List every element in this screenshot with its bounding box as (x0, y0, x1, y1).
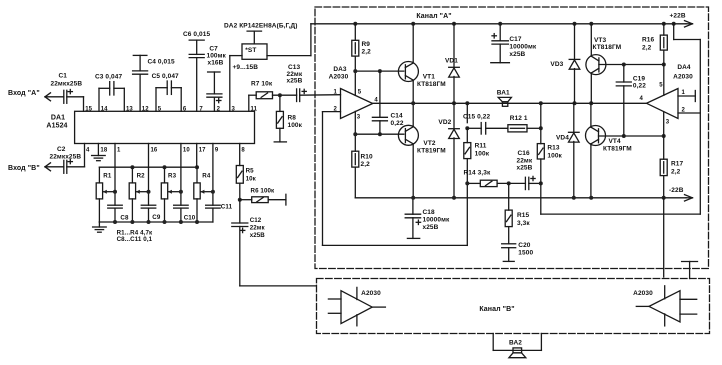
svg-text:С2: С2 (57, 146, 66, 153)
svg-text:2: 2 (217, 106, 221, 112)
wire C2 to pin4 (67, 166, 85, 168)
svg-text:2,2: 2,2 (642, 45, 652, 52)
terminal to channel B (682, 261, 698, 263)
svg-text:A2030: A2030 (673, 73, 693, 80)
svg-text:х25В: х25В (250, 232, 266, 239)
svg-text:12: 12 (142, 106, 149, 112)
svg-text:С14: С14 (391, 113, 404, 120)
svg-text:С12: С12 (250, 217, 262, 224)
svg-text:7: 7 (199, 106, 203, 112)
svg-text:8: 8 (241, 147, 245, 153)
svg-text:3: 3 (357, 114, 361, 120)
svg-text:3,3к: 3,3к (517, 220, 530, 227)
svg-text:VT2: VT2 (423, 140, 436, 147)
svg-text:х25В: х25В (509, 51, 525, 58)
svg-text:С16: С16 (518, 150, 531, 157)
svg-text:С3 0,047: С3 0,047 (95, 74, 122, 81)
svg-text:х25В: х25В (517, 165, 533, 172)
svg-text:Вход "В": Вход "В" (8, 165, 40, 172)
svg-text:13: 13 (126, 106, 133, 112)
svg-text:R13: R13 (547, 145, 560, 152)
svg-text:С5 0,047: С5 0,047 (152, 73, 179, 80)
dashed box channel A (315, 7, 709, 269)
svg-text:А2030: А2030 (329, 73, 349, 80)
svg-text:0,22: 0,22 (633, 82, 646, 89)
wire DA3 pin5 stub (354, 71, 356, 95)
wire pin17 line (196, 144, 198, 168)
svg-text:С4 0,015: С4 0,015 (148, 59, 175, 66)
svg-text:1: 1 (117, 147, 121, 153)
svg-text:22мкх25В: 22мкх25В (51, 81, 83, 88)
wire DA2 to +22V rail (267, 55, 311, 57)
svg-text:DA1: DA1 (51, 115, 65, 122)
svg-text:A2030: A2030 (633, 290, 653, 297)
wire DA3 pin2 feedback (323, 111, 341, 113)
svg-text:R17: R17 (671, 161, 684, 168)
svg-text:А1524: А1524 (46, 123, 67, 130)
svg-text:17: 17 (199, 147, 206, 153)
svg-text:15: 15 (85, 106, 92, 112)
wire pin1 line (114, 144, 116, 206)
wire pin10 line (180, 144, 182, 206)
svg-text:6: 6 (183, 106, 187, 112)
svg-text:4: 4 (374, 98, 378, 104)
svg-text:С18: С18 (423, 209, 436, 216)
svg-text:R14 3,3к: R14 3,3к (464, 170, 491, 177)
svg-text:10000мк: 10000мк (509, 44, 536, 51)
svg-text:14: 14 (101, 106, 108, 112)
ground pots (98, 222, 100, 227)
wire C12 to channel B (240, 285, 316, 287)
svg-text:VT1: VT1 (423, 74, 436, 81)
svg-text:VD4: VD4 (556, 134, 569, 141)
svg-text:R5: R5 (246, 168, 255, 175)
svg-text:-22В: -22В (669, 187, 684, 194)
svg-text:R2: R2 (137, 173, 146, 180)
wire feedback to R13 (541, 213, 701, 215)
svg-text:R8: R8 (288, 115, 297, 122)
wire VT2 base line (355, 133, 404, 135)
svg-text:С7: С7 (209, 46, 218, 53)
svg-text:С8...С11 0,1: С8...С11 0,1 (117, 236, 153, 243)
svg-text:ВА2: ВА2 (509, 339, 522, 346)
svg-text:3: 3 (232, 106, 236, 112)
svg-text:5: 5 (158, 106, 162, 112)
wire DA4 pin3 stub (663, 112, 665, 136)
svg-text:2,2: 2,2 (671, 169, 681, 176)
ground pin18 (97, 144, 99, 156)
svg-text:100к: 100к (288, 122, 303, 129)
wire DA4 pin1 terminal (678, 95, 695, 97)
svg-text:11: 11 (251, 106, 258, 112)
svg-text:DA4: DA4 (677, 64, 691, 71)
svg-text:Канал "А": Канал "А" (416, 13, 451, 20)
svg-text:R4: R4 (202, 173, 211, 180)
svg-text:+22В: +22В (670, 13, 686, 20)
svg-text:1500: 1500 (518, 250, 533, 257)
svg-text:С8: С8 (120, 214, 129, 221)
svg-text:С6 0,015: С6 0,015 (183, 31, 210, 38)
wire VT1 base line (355, 70, 404, 72)
wire +22V to right vertical (673, 24, 675, 40)
svg-text:10: 10 (183, 147, 190, 153)
svg-text:С10: С10 (184, 214, 196, 221)
svg-text:22мкх25В: 22мкх25В (50, 154, 82, 161)
svg-text:х25В: х25В (287, 78, 303, 85)
wire -22V to channel B right amp (663, 198, 665, 277)
wire output to C15 node (466, 103, 468, 122)
svg-text:DA2 КР142ЕН8А(Б,Г,Д): DA2 КР142ЕН8А(Б,Г,Д) (224, 23, 298, 30)
svg-text:КТ819ГМ: КТ819ГМ (603, 146, 632, 153)
svg-text:С1: С1 (59, 73, 68, 80)
svg-text:22мк: 22мк (250, 225, 266, 232)
wire DA4 pin5 stub (663, 65, 665, 96)
svg-text:R9: R9 (362, 41, 371, 48)
svg-text:КТ819ГМ: КТ819ГМ (417, 147, 446, 154)
wire pin16 line (148, 144, 150, 206)
svg-text:х25В: х25В (423, 224, 439, 231)
svg-text:ВА1: ВА1 (497, 90, 510, 97)
svg-text:R15: R15 (517, 212, 530, 219)
svg-text:A2030: A2030 (361, 290, 381, 297)
svg-text:+9...15В: +9...15В (233, 64, 259, 71)
wire pots top line (99, 166, 197, 168)
svg-text:КТ818ГМ: КТ818ГМ (593, 44, 622, 51)
svg-text:3: 3 (666, 119, 670, 125)
svg-text:R16: R16 (642, 37, 655, 44)
wire +22V rail (311, 23, 686, 25)
wire C1 to pin15 (67, 96, 84, 98)
wire bottom rail pots (99, 221, 212, 223)
svg-text:С20: С20 (518, 242, 531, 249)
svg-text:10000мк: 10000мк (423, 217, 450, 224)
svg-text:0,22: 0,22 (391, 120, 404, 127)
svg-text:Вход "А": Вход "А" (8, 90, 40, 97)
svg-text:R7 10к: R7 10к (251, 81, 273, 88)
svg-text:100к: 100к (547, 153, 562, 160)
svg-text:VD2: VD2 (438, 119, 451, 126)
wire R7 to C13 (273, 94, 297, 96)
svg-text:18: 18 (100, 147, 107, 153)
svg-text:10к: 10к (246, 176, 257, 183)
svg-text:VD1: VD1 (445, 58, 458, 65)
svg-text:5: 5 (659, 83, 663, 89)
svg-text:R12 1: R12 1 (510, 115, 528, 122)
svg-text:100к: 100к (475, 151, 490, 158)
wire DA4 pin2 (678, 112, 700, 114)
wire C13 to DA3 pin1 (300, 94, 341, 97)
wire output rail channel A (373, 102, 647, 104)
svg-text:VT4: VT4 (609, 138, 622, 145)
svg-text:С9: С9 (152, 214, 161, 221)
svg-text:1: 1 (682, 90, 686, 96)
wire DA3 pin3 stub (354, 111, 356, 134)
svg-text:Канал "В": Канал "В" (479, 306, 514, 313)
svg-text:5: 5 (358, 90, 362, 96)
svg-text:R3: R3 (168, 173, 177, 180)
svg-text:R1: R1 (103, 173, 112, 180)
svg-text:4: 4 (86, 147, 90, 153)
wire pin9 line (212, 144, 214, 206)
svg-text:х16В: х16В (208, 60, 224, 67)
svg-text:1: 1 (334, 89, 338, 95)
svg-text:С17: С17 (509, 36, 522, 43)
svg-text:VD3: VD3 (550, 61, 563, 68)
wire DA2 to pin3 (230, 55, 242, 57)
svg-text:2,2: 2,2 (362, 49, 372, 56)
svg-text:R10: R10 (361, 154, 374, 161)
svg-text:КТ818ГМ: КТ818ГМ (417, 81, 446, 88)
svg-text:9: 9 (215, 147, 219, 153)
svg-text:DA3: DA3 (333, 66, 347, 73)
wire -22V rail (355, 197, 686, 199)
svg-text:16: 16 (151, 147, 158, 153)
svg-text:4: 4 (640, 96, 644, 102)
IC DA1 A1524 (75, 111, 255, 143)
svg-text:R11: R11 (475, 143, 487, 150)
svg-text:С13: С13 (288, 64, 301, 71)
svg-text:R6 100к: R6 100к (251, 188, 276, 195)
wire pin11 to R7 (248, 95, 250, 111)
dashed box channel B (317, 279, 710, 334)
svg-text:*ST: *ST (245, 47, 256, 54)
svg-text:С15 0,22: С15 0,22 (463, 114, 490, 121)
svg-text:С11: С11 (221, 204, 233, 211)
svg-text:22мк: 22мк (517, 157, 533, 164)
svg-text:2,2: 2,2 (361, 161, 371, 168)
svg-text:100мк: 100мк (207, 53, 227, 60)
